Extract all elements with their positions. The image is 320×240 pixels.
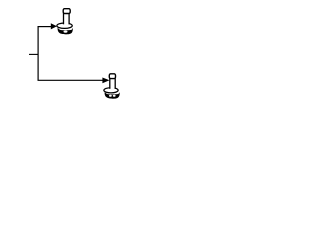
bolt B1 cap <box>63 9 70 14</box>
bolt B1 nut white speck <box>64 31 68 33</box>
bolt B1 washer ellipse <box>57 23 72 28</box>
bolt B2 nut white specks <box>109 95 112 97</box>
wire: vertical bus <box>37 27 39 81</box>
bolt B1 nut dark band <box>58 28 73 35</box>
bolt B1 (top) <box>57 9 73 35</box>
bolt B2 cap <box>109 74 115 79</box>
arrowhead to bolt 2 <box>102 78 109 84</box>
bolt B2 shaft <box>110 79 114 91</box>
wire: bottom horizontal <box>38 79 104 81</box>
bolt B2 nut dark band <box>105 92 120 99</box>
bolt B2 washer ellipse <box>104 88 118 93</box>
wire: top horizontal <box>38 26 53 28</box>
bolt B2 (bottom) <box>104 74 120 99</box>
bolt B1 shaft <box>64 13 69 26</box>
wire: left stub tick <box>29 53 38 55</box>
arrowhead to bolt 1 <box>51 23 57 29</box>
background <box>0 0 150 109</box>
